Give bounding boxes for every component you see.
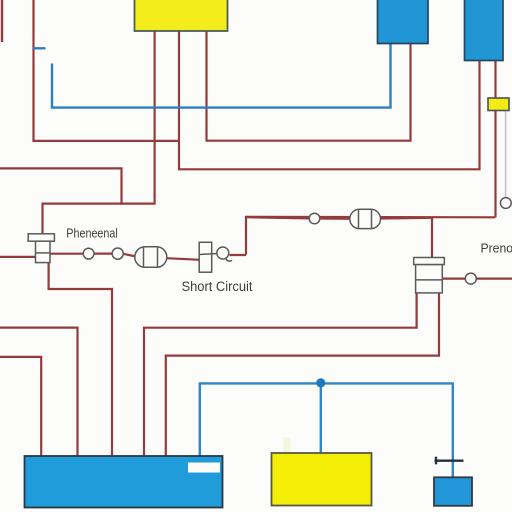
circle node at right edge [500,198,511,209]
yellow small rect on right riser [488,98,509,111]
yellow box bottom [272,453,372,506]
capacitor crossbar above small blue box [435,457,464,465]
wire: left edge stub top-left [1,0,3,42]
wire: stack bottom-right pin down, left along y355.6, down at x165.8 [166,292,439,457]
wire: Q circle tail to corner riser x246 [230,254,247,256]
blue box top-middle [378,0,429,44]
wire: row1 segment circle to oval [320,217,351,220]
wire: bushing to circle D1 [50,253,83,255]
wire: faint gray riser to circle at right edge [505,111,507,198]
wire: left edge y357 then down at x41 into big blue box [0,357,41,457]
wire: bushing bottom pin down right down into big blue box [49,262,112,457]
circle node D2 on row2 [112,248,123,259]
wire: blue bottom bus with corners into boxes [200,383,453,478]
wire: blue box 2 right pin down (behind small yellow rect) to y217 row [494,59,496,217]
wire: oval F2 to splitter rect [167,258,201,260]
oval component F2 on row2 (stadium with two bars) [135,247,167,267]
wire: stack right to circle then right edge [442,278,465,280]
blue box top-right [465,0,504,61]
svg-text:Pheneenal: Pheneenal [66,225,118,240]
wire: row 1 horizontal y217 from corner x246 to x495.5 [246,217,496,255]
splitter rect component on row2 [199,242,217,272]
circle node D1 on row2 [83,248,94,259]
wire: circle D2 to oval F2 [123,254,136,257]
wire: yellow box pin B down to y169 then right to blue box 2 left pin [179,30,480,169]
node: blue junction dot [316,378,325,387]
svg-text:Short Circuit: Short Circuit [182,279,253,294]
yellow box top (component block) [135,0,228,31]
wire: yellow box pin A down, left along y204, down to bushing top [43,30,155,235]
svg-text:Prenool: Prenool [481,240,512,255]
bushing component X1 (top bar + segmented body) [28,234,54,263]
wire: stack bottom-left pin down, left along y327.7, down at x144 [144,292,417,457]
wire: blue bus from x52 tip right to blue box 1 blue pin [52,42,391,108]
Q circle with tail on row2 [217,247,232,261]
wire: left edge into bushing at y257 [0,256,36,258]
wire: branch from y204 up at x122.5 to left edge along y168.5 [0,168,122,204]
oval component F1 on row1 (stadium with two bars) [350,209,381,228]
circle node on row1 [309,213,320,224]
wire: blue branch from junction down to yellow box [320,383,322,454]
wire: vertical from top at x33 to node on pin B via y141 horizontal [34,0,180,141]
wire: blue short dash top-left [33,47,46,49]
big blue box bottom-left [25,456,223,508]
small blue box bottom-right [434,477,472,506]
wire: T branch at x432 down to stack top [431,217,433,258]
notch: white slot in big blue box [188,463,220,473]
stack component X2 (top bar + two-cell body) [414,258,445,293]
wire: yellow box pin C down to y140.7 then right and up to blue box 1 red pin [207,30,411,141]
wire: left edge y327.5 then down at x77.5 into big blue box [0,328,78,457]
artifact: faint streak above bottom yellow box [284,437,291,454]
wire: row1 segment oval to right riser [380,217,432,220]
circle node right of stack [465,273,476,284]
wire: row1 segment corner to circle [246,217,309,218]
wire: circle D1 to circle D2 [94,253,112,255]
